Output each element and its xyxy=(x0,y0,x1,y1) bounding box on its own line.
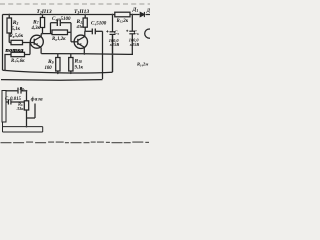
svg-text:х15В: х15В xyxy=(129,42,139,47)
svg-text:Д: Д xyxy=(146,9,150,14)
svg-text:С3са5100: С3са5100 xyxy=(52,17,71,22)
svg-text:R45,6к: R45,6к xyxy=(11,59,25,64)
svg-text:R142м: R142м xyxy=(137,62,148,68)
svg-text:R85,6к: R85,6к xyxy=(10,34,24,39)
svg-text:33к: 33к xyxy=(16,106,25,111)
svg-text:потка: потка xyxy=(6,48,24,54)
svg-text:43к: 43к xyxy=(76,24,85,29)
svg-text:фаза: фаза xyxy=(31,95,43,102)
svg-text:100: 100 xyxy=(45,66,53,71)
svg-text:5,1к: 5,1к xyxy=(12,27,21,32)
svg-text:R9: R9 xyxy=(47,59,54,65)
svg-text:С6: С6 xyxy=(134,31,139,36)
svg-text:Пр.: Пр. xyxy=(19,87,26,91)
svg-text:R81,2к: R81,2к xyxy=(52,37,66,42)
svg-text:9,1к: 9,1к xyxy=(75,65,84,70)
svg-text:R10: R10 xyxy=(74,58,83,64)
svg-text:х15В: х15В xyxy=(109,42,119,47)
svg-text:R3: R3 xyxy=(12,20,19,26)
svg-text:С45100: С45100 xyxy=(91,22,107,27)
svg-text:С5: С5 xyxy=(114,31,119,36)
svg-text:R7: R7 xyxy=(32,19,39,25)
svg-text:Д1: Д1 xyxy=(132,7,139,13)
svg-text:4,3к: 4,3к xyxy=(31,26,41,31)
svg-text:Т3П13: Т3П13 xyxy=(74,9,89,15)
svg-text:R122к: R122к xyxy=(117,19,129,24)
svg-text:Т2П13: Т2П13 xyxy=(37,9,52,15)
